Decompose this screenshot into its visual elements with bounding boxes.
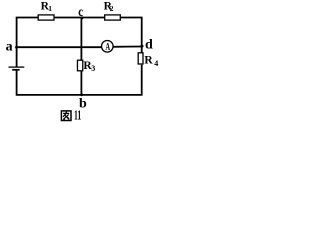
svg-text:1: 1 [48,4,52,13]
wire middle: ammeter to node d [113,46,142,48]
resistor R2 [105,15,121,20]
svg-text:3: 3 [91,64,95,73]
resistor R3 [77,60,82,71]
svg-text:c: c [78,4,83,20]
wire node c down to R3 [80,18,82,61]
wire R2 to top-right corner down to node d [121,18,142,47]
node c junction dot [80,16,83,19]
wire left branch: node a down to battery [16,46,18,67]
node d junction dot [141,45,144,48]
battery short plate [12,69,19,71]
node b junction dot [80,93,83,96]
svg-text:A: A [105,40,110,52]
battery long plate [9,66,25,68]
resistor R4 [138,53,143,64]
node a junction dot [15,46,18,49]
wire node d to R4 [141,46,143,53]
svg-text:R: R [144,54,153,66]
resistor R1 [38,15,54,20]
ammeter U1 circle [102,41,114,53]
wire bottom: node b to bottom-right corner up to R4 [81,65,141,95]
caption character tu (figure) drawn as glyph [61,111,71,121]
svg-text:a: a [6,40,13,55]
svg-text:11: 11 [74,108,82,123]
svg-text:d: d [145,38,153,53]
wire battery down to bottom-left corner [17,71,82,95]
wire R1 to node c to R2 [55,17,105,19]
wire top-left segment (top-left corner to R1) [17,18,38,47]
wire middle: node a to ammeter [17,46,102,48]
wire R3 down to node b [80,71,82,95]
svg-text:4: 4 [154,59,158,68]
svg-text:2: 2 [110,4,114,13]
